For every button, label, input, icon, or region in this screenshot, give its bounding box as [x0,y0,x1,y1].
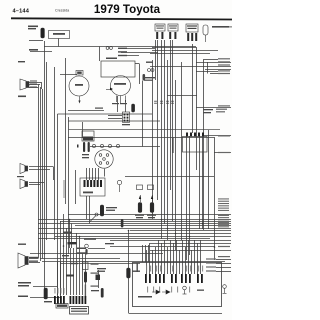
wire vertical bus left x42 [42,89,44,259]
wire vertical x75.5 [75,170,77,204]
igniter box [80,178,105,196]
regulator box [101,61,135,77]
emission computer pins cluster1 [54,296,86,304]
emission computer box [70,307,89,315]
wire horizontal y95.5 [167,95,197,97]
component symbols [18,24,227,314]
tiny label smudges [17,26,229,312]
wire horizontal y40.5 label lead top left [29,40,43,42]
right top label leads [228,26,232,28]
fusible links right labels leads [121,48,155,50]
right bottom labels leads [216,259,231,261]
cluster1 bracket box [56,304,68,309]
mid column pill [84,272,87,283]
mid column outline box [83,262,89,270]
wire vertical x117.5 [117,96,119,112]
4cyl dark label [68,242,77,244]
ignition switch box [183,137,208,153]
inline connector dashes [154,100,157,102]
ECU pin clusters [145,274,203,283]
fusible link symbols on y46.5 [106,47,109,50]
noise filter box [96,275,101,281]
wire vertical x207.5 [207,62,209,74]
ECU pin labels [145,266,148,272]
ECU diodes [152,290,170,294]
horn 1 [20,79,26,90]
wire vertical x54.5 [54,67,56,240]
starter circle [69,76,89,96]
wire horizontal y51 [30,51,52,53]
wire vertical x203.5 [203,59,205,230]
mid column pin marks [85,285,86,298]
wire vertical below box A [58,39,60,47]
distributor side connector pills [83,142,85,152]
wire vertical x65 through starter column [65,58,67,204]
wire vertical bus left x40 [40,87,42,261]
condenser [117,180,121,184]
band crossing verticals [63,214,65,262]
wire vertical x57.5 long [57,114,59,296]
wire vertical bus left x38 [38,85,40,259]
mid connector box [122,112,129,122]
check lamp pill [85,249,87,255]
mid column labels [91,264,99,265]
dense horizontal band [68,214,231,216]
wire vertical x60 [60,221,62,296]
horn 3 big [18,253,25,268]
oil pressure switch 1 [138,203,142,213]
arrow label mid bottom [66,275,74,277]
distributor cap circle [95,150,113,168]
resistor pill right [127,268,131,278]
oil pressure switch 2 [150,203,154,213]
ignition switch pin row [186,133,204,137]
ECU pin feed verticals [146,250,148,274]
wire horizontal fusible link line y46.5 [44,46,196,48]
pill connector bottom mid [101,288,104,298]
alternator pins [116,96,118,103]
horn 2 [20,164,25,174]
horn 2 leads [29,166,53,168]
wire vertical x68 box edge [68,117,70,254]
top right hookup horizontals [152,47,196,49]
top right box 3 [186,24,198,32]
wire vertical x133 [133,104,135,112]
4cyl fusible link mid right [148,69,151,72]
igniter bottom wires [86,196,88,219]
wire horizontal starter feed y74 [60,74,77,76]
left connector col bottom [44,288,47,299]
wire vertical bus left x46 [46,62,48,240]
bottom computer feeds verticals [57,262,59,295]
big box corner y114 [58,113,153,115]
igniter feed verticals [86,168,88,180]
top right relay box 2 [168,24,178,31]
small boxes above oil sw [137,185,143,190]
junction dots [161,219,163,221]
wire long gray y129.5 [68,129,220,131]
header rule [11,18,232,19]
arrow into alternator [106,89,110,91]
big box corner y117 [68,120,160,122]
small box above dist connector [82,131,94,141]
wire corner down from horn1 [41,82,43,89]
connector top left [41,28,45,38]
ECU box [133,263,222,307]
right bus verticals from top connectors [152,60,154,219]
wire vertical x99 down from fuse line [99,47,101,62]
label line mid [68,110,104,112]
connector right of box [132,104,135,112]
wire vertical x82.5 [82,122,84,138]
ground below ECU pins [183,286,187,290]
right edge label column [206,58,230,271]
svg-text:1979 Toyota: 1979 Toyota [94,3,161,16]
band connector pill [121,219,124,228]
wire long y137 [68,137,214,139]
alternator circle [111,76,131,96]
box A top [49,31,70,39]
wire vertical bus left x44 [44,41,46,297]
bottom horizontals [88,248,105,250]
high tension pill connector [100,205,103,216]
wire vertical x139 [139,64,141,85]
top right relay box 1 [155,24,165,31]
wire vertical x125.5 [125,100,127,112]
top right cylinder [203,25,208,35]
dist bottom stub [104,169,106,177]
starter solenoid cap [76,71,83,76]
check lamp circle [85,244,89,248]
wires into mid connector box [108,115,122,117]
spark terminal row [92,144,95,147]
horn 1 leads [29,82,41,84]
igniter pins [84,180,103,187]
wire y63 stub [135,63,139,65]
horn 3 leads [29,258,38,260]
emission pin labels [54,288,57,294]
ground right of ECU [223,285,227,289]
svg-text:4–144: 4–144 [13,8,30,14]
terminal row line [90,146,160,148]
ECU extra feed verticals [149,243,151,274]
svg-text:Cressida: Cressida [55,9,69,13]
horn 2b [20,179,25,189]
starter bottom pin [79,96,81,102]
pill connector right of regulator [143,74,146,81]
